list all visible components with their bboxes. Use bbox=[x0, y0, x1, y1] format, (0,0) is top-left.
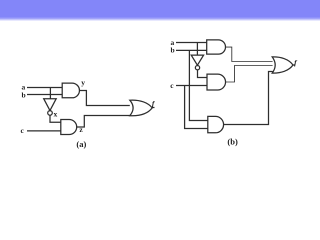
AND gate B2 middle bbox=[207, 74, 226, 90]
wire b bbox=[27, 94, 62, 96]
wire c bbox=[27, 130, 61, 132]
wire B3 out to OR bbox=[224, 72, 273, 125]
purple title bar bbox=[0, 0, 320, 18]
wire B2 out to OR bbox=[226, 66, 273, 83]
wire a (b) bbox=[176, 42, 207, 44]
svg-text:y: y bbox=[81, 78, 85, 87]
wire B1 out to OR bbox=[226, 47, 273, 61]
AND gate A1 bbox=[62, 83, 79, 98]
svg-text:b: b bbox=[171, 46, 175, 55]
AND gate B3 bottom bbox=[208, 116, 224, 132]
wire z AND2 to OR bbox=[77, 116, 130, 128]
OR gate O1 bbox=[130, 100, 152, 116]
AND gate B1 top bbox=[207, 40, 226, 54]
wire c (b) bbox=[176, 85, 207, 87]
svg-text:x: x bbox=[54, 110, 58, 119]
inverter G1 bubble bbox=[48, 111, 53, 116]
AND gate A2 bbox=[61, 120, 77, 135]
wire f output a bbox=[152, 107, 154, 109]
svg-text:b: b bbox=[22, 90, 26, 99]
inverter G2 triangle bbox=[191, 55, 203, 65]
wire x to AND2 bbox=[50, 115, 61, 122]
OR gate O2 bbox=[272, 57, 293, 73]
wire tap a to inverter (b) bbox=[196, 43, 198, 56]
wire tap b down to AND bottom bbox=[189, 50, 207, 120]
wire a bbox=[27, 87, 62, 89]
wire tap c down to AND bottom bbox=[185, 86, 208, 129]
purple title bar soft bottom edge bbox=[0, 18, 320, 22]
wire tap a to inverter bbox=[49, 88, 51, 99]
wire y AND1 to OR bbox=[79, 91, 129, 106]
svg-text:(a): (a) bbox=[76, 139, 86, 149]
wire f output b bbox=[293, 64, 295, 66]
inverter G2 bubble bbox=[195, 66, 199, 70]
wire b (b) bbox=[176, 49, 207, 51]
inverter G1 triangle bbox=[44, 99, 57, 111]
wire inverter out to AND mid bbox=[198, 70, 208, 78]
svg-text:(b): (b) bbox=[227, 137, 238, 147]
